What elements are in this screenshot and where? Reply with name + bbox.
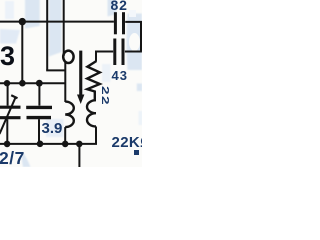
capacitor C-3.9 leads — [38, 83, 40, 105]
coupling loop L-link — [63, 51, 73, 63]
label 2/7 — [0, 148, 25, 169]
wire y83 horizontal — [0, 82, 65, 84]
wire horizontal y70 — [46, 69, 65, 71]
label 3 (big) — [0, 41, 15, 72]
label 3.9 — [42, 120, 63, 137]
trimmer arrow T-bar — [11, 95, 17, 98]
node G2 dot — [37, 141, 44, 148]
wire link loop lead from top edge — [63, 0, 65, 56]
label 43 — [112, 68, 128, 83]
wire vertical from node A down — [21, 22, 23, 84]
resistor R-22 zigzag — [87, 61, 100, 100]
node A dot — [19, 18, 26, 25]
slug-tuning arrow — [77, 51, 84, 104]
node B2 dot — [19, 80, 26, 87]
node G3 dot — [62, 141, 69, 148]
node G4 dot — [76, 141, 83, 148]
watermark — [0, 0, 143, 167]
trimmer capacitor plates — [0, 106, 21, 109]
wire stub below node G2 — [78, 144, 80, 167]
trimmer arrow diagonal — [0, 97, 16, 134]
capacitor C-43 plates — [113, 39, 116, 66]
trimmer capacitor leads — [7, 83, 9, 105]
node B1 dot — [4, 80, 10, 86]
wire top horizontal — [0, 21, 114, 23]
wire right winding bottom lead — [0, 127, 96, 144]
label fragment below 22K — [134, 150, 139, 155]
node B3 dot — [36, 80, 43, 87]
capacitor C-82 plates — [114, 12, 117, 34]
capacitor C-82 left lead is top wire; right lead — [125, 22, 141, 52]
transformer T1 right winding — [87, 100, 96, 126]
junction dots — [4, 18, 83, 147]
label 82 — [111, 0, 128, 13]
capacitor C-3.9 plates — [26, 106, 52, 109]
capacitor C-43 leads — [125, 51, 142, 53]
node G1 dot — [4, 141, 11, 148]
label 22K — [112, 134, 152, 151]
wire vertical x65 loop to coil — [64, 62, 66, 103]
wire vertical x47 from top edge — [46, 0, 48, 70]
label 22 rotated — [99, 86, 111, 106]
wire left winding bottom lead — [64, 127, 66, 144]
transformer T1 left winding — [65, 102, 74, 128]
